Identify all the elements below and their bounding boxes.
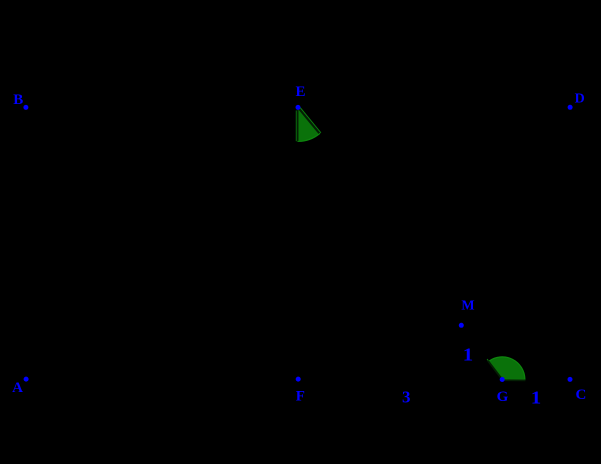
point G <box>500 377 505 382</box>
point F <box>296 377 301 382</box>
svg-text:C: C <box>576 387 587 403</box>
point B <box>23 105 28 110</box>
angle sector at G (fill) <box>489 357 525 380</box>
angle sector at E ray EG (dark edge) <box>299 109 319 134</box>
svg-text:F: F <box>296 388 305 404</box>
svg-text:1: 1 <box>531 389 541 408</box>
svg-text:3: 3 <box>402 388 411 407</box>
point E <box>296 105 301 110</box>
point A <box>24 377 29 382</box>
angle sector at E bright rim outside ray EG <box>300 108 321 133</box>
svg-text:M: M <box>461 298 474 313</box>
svg-text:E: E <box>296 84 306 100</box>
svg-text:B: B <box>13 92 23 108</box>
angle sector at E (fill) <box>298 107 320 141</box>
svg-text:A: A <box>12 380 23 396</box>
angle sector at E ray EF (dark edge) <box>297 110 299 141</box>
angle sector at G bright rim outside ray GM <box>487 359 501 377</box>
svg-text:1: 1 <box>463 346 473 365</box>
svg-text:G: G <box>497 389 509 405</box>
point C <box>568 377 573 382</box>
point M <box>459 323 464 328</box>
angle sector at G ray GC (dark edge) <box>504 379 525 381</box>
angle sector at E bright rim left of ray EF <box>295 111 297 142</box>
svg-text:D: D <box>575 91 585 106</box>
point D <box>568 105 573 110</box>
angle sector at G ray GM (dark edge) <box>488 361 502 379</box>
